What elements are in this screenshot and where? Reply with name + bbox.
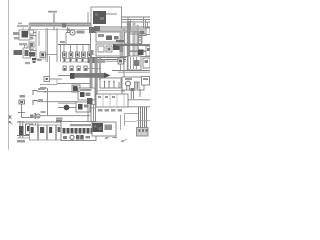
terminal marks below band	[62, 23, 70, 33]
wire vertical x36	[35, 30, 37, 60]
wire horiz right column	[116, 34, 150, 57]
arrow symbol far left	[8, 121, 12, 125]
wire row3 with switch S2	[30, 111, 90, 119]
connector C3 small	[40, 52, 57, 58]
connector cell row bottom	[30, 125, 64, 140]
connector plug right bottom	[137, 128, 149, 137]
arrow below block	[105, 136, 118, 139]
wire row2	[33, 99, 78, 105]
lamp L1 (circle component)	[66, 30, 85, 45]
wire vertical x49	[49, 56, 51, 77]
wire bus y57-61	[90, 58, 126, 62]
wire band below box	[91, 26, 150, 31]
star mark with label	[32, 58, 42, 63]
wire vertical band center x90-101	[90, 58, 102, 105]
wire harness band top	[29, 23, 91, 30]
label smudge	[60, 41, 65, 43]
wire bundle right (vertical stripes)	[139, 107, 147, 128]
connector stack right edge	[146, 28, 150, 56]
label text smudge	[19, 43, 27, 45]
wire vertical x57	[56, 28, 58, 62]
label smudge left	[25, 62, 30, 64]
junction blob right	[138, 50, 144, 56]
connector strip left column	[29, 30, 35, 57]
connector box B-61	[96, 32, 122, 42]
wire top line of bottom section	[17, 118, 63, 123]
connector box right edge	[143, 58, 150, 68]
ECU box bottom center	[61, 122, 96, 141]
node A-74 label	[48, 11, 57, 13]
wire band y60 center	[86, 60, 105, 69]
wide connector box bottom mid-right	[96, 94, 128, 107]
connector box x128-141	[128, 56, 141, 70]
connector block B-1 (top right box)	[91, 7, 122, 29]
wire vertical band right x127-139	[127, 21, 139, 70]
connector box with pins x100-121	[100, 78, 121, 88]
wire vertical x90.5	[90, 28, 92, 62]
wire lines to right edge	[128, 100, 150, 107]
wire vertical band x120-123	[120, 30, 124, 57]
motor M1 (pump, dark circle)	[58, 103, 76, 110]
wire vertical x124	[123, 28, 125, 92]
lamp box with bulb and connector	[122, 77, 144, 90]
ground G1 dark component	[58, 73, 75, 79]
connector small box far right	[142, 77, 150, 86]
connector row y66-70	[63, 66, 87, 71]
wire bus y44.5	[58, 44, 90, 46]
wire vertical x47.5	[47, 88, 49, 116]
wire vertical x88 top	[87, 12, 89, 23]
connector block bottom right of ECU	[92, 122, 116, 136]
page edge line	[8, 0, 10, 150]
junction blob top of center column	[89, 27, 96, 33]
arrow symbol right bottom	[121, 140, 128, 143]
label row below box	[98, 109, 122, 112]
wire L corner	[125, 114, 151, 127]
star mark bottom left	[9, 115, 12, 119]
relay K2 (lower left)	[14, 45, 37, 59]
wire thick band with arrow	[75, 73, 118, 79]
wire short y59	[36, 58, 46, 60]
wire drops to fuse row	[61, 45, 90, 63]
relay box right column	[125, 32, 143, 44]
connector box B-81 (mid)	[78, 88, 95, 100]
wire bus y70-72	[112, 71, 150, 73]
wire vertical pair x46.5	[46, 28, 48, 62]
wire nested corners top right	[122, 17, 151, 30]
label smudge above cluster	[33, 116, 39, 118]
relay K4 box	[76, 102, 96, 112]
wire rows from left: row1	[33, 88, 80, 95]
wire A-74 vertical	[53, 13, 55, 31]
junction dark blob center-left column	[87, 98, 96, 122]
buzzer BZ1 left	[18, 95, 34, 118]
wire stubs left of band	[17, 23, 31, 32]
component box right x118	[118, 58, 124, 71]
connector C-2 (small box right)	[138, 29, 146, 36]
switch S1 circle component	[40, 77, 90, 90]
relay K3 dark box center	[72, 85, 80, 92]
wire y90.7 light	[95, 90, 122, 92]
terminal row y58-62	[62, 58, 95, 63]
connector box B-62	[96, 44, 122, 56]
fuse F row	[63, 52, 92, 57]
wire legs below lamps	[121, 88, 140, 99]
wire vertical x39	[38, 31, 40, 46]
wire vertical x120 right of block	[120, 115, 122, 130]
wire marks left of box	[90, 50, 94, 55]
ignition switch cluster bottom left	[17, 121, 40, 143]
relay K1 (upper left)	[13, 30, 36, 40]
